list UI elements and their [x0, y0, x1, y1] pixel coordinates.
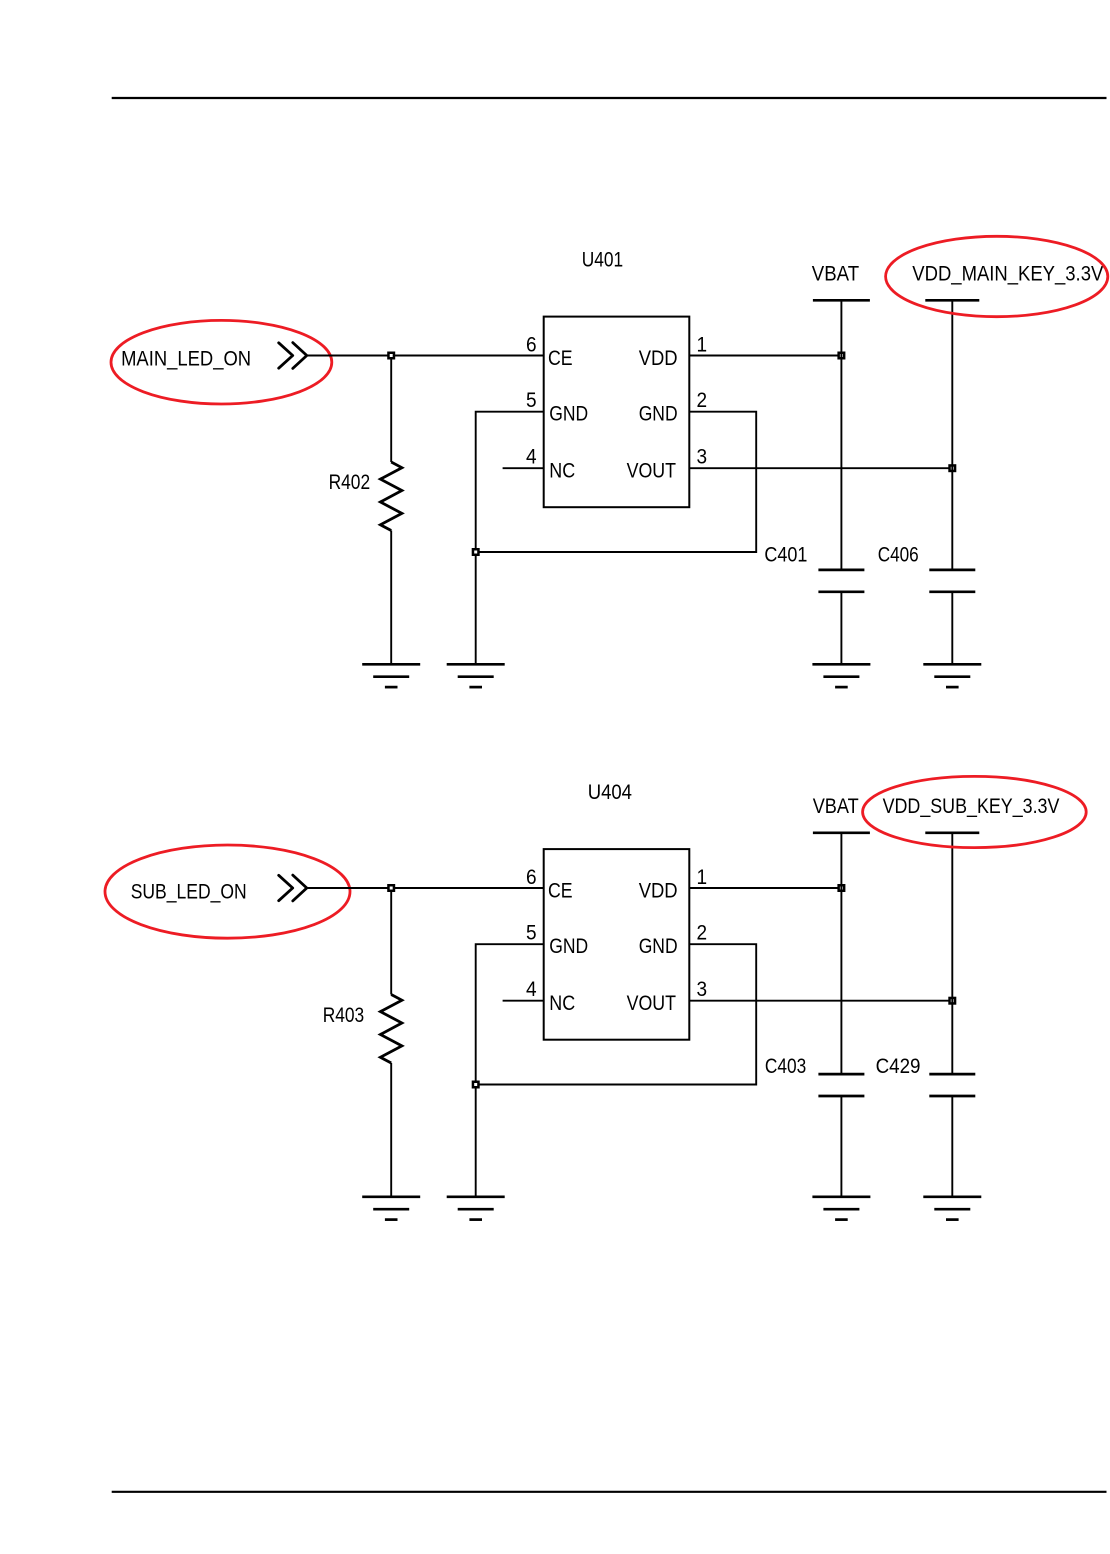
ground	[362, 1197, 420, 1220]
input port chevron SUB_LED_ON	[279, 875, 307, 901]
red highlight ellipse around SUB_LED_ON	[105, 845, 350, 938]
svg-text:U404: U404	[588, 781, 633, 804]
IC U401	[544, 317, 690, 508]
svg-text:C406: C406	[878, 543, 919, 566]
svg-text:VOUT: VOUT	[627, 992, 677, 1015]
ground	[362, 664, 420, 687]
svg-text:5: 5	[526, 389, 537, 412]
wire: VOUT pin 3 to output rail	[689, 467, 952, 469]
junction input/R402 node	[388, 353, 394, 359]
svg-text:2: 2	[697, 921, 708, 944]
svg-text:C403: C403	[765, 1055, 806, 1078]
svg-text:VBAT: VBAT	[812, 262, 859, 285]
resistor R402	[380, 359, 402, 665]
wire: GND pin 2 return to ground net	[479, 412, 757, 552]
svg-text:R402: R402	[329, 471, 371, 494]
svg-text:CE: CE	[548, 347, 573, 370]
svg-text:VDD: VDD	[639, 880, 678, 903]
wire: capacitor to ground	[951, 1096, 953, 1197]
svg-text:VDD: VDD	[639, 347, 678, 370]
power symbol VDD_MAIN_KEY_3.3V	[925, 300, 979, 570]
power symbol VBAT	[813, 300, 870, 570]
junction ground net	[473, 549, 479, 555]
svg-text:2: 2	[697, 389, 708, 412]
svg-text:VBAT: VBAT	[813, 795, 859, 818]
svg-text:U401: U401	[582, 248, 623, 271]
capacitor C401	[818, 570, 864, 592]
svg-text:6: 6	[526, 334, 537, 357]
wire: GND pin 2 return to ground net	[479, 944, 757, 1084]
svg-text:6: 6	[526, 866, 537, 889]
wire: NC pin 4 stub	[503, 467, 544, 469]
wire: VOUT pin 3 to output rail	[689, 1000, 952, 1002]
svg-text:NC: NC	[549, 992, 575, 1015]
capacitor C429	[929, 1074, 975, 1096]
wire: input to CE pin 6	[307, 887, 544, 889]
svg-text:VDD_MAIN_KEY_3.3V: VDD_MAIN_KEY_3.3V	[912, 263, 1103, 286]
svg-text:VOUT: VOUT	[627, 459, 677, 482]
capacitor C406	[929, 570, 975, 592]
junction VDD/VBAT	[839, 353, 845, 359]
svg-text:3: 3	[697, 446, 708, 469]
capacitor C403	[818, 1074, 864, 1096]
svg-text:5: 5	[526, 921, 537, 944]
ground	[812, 664, 870, 687]
wire: input to CE pin 6	[307, 355, 544, 357]
wire: GND pin 5 to ground net	[476, 412, 544, 665]
svg-text:1: 1	[697, 866, 708, 889]
junction ground net	[473, 1082, 479, 1088]
svg-text:C401: C401	[764, 543, 807, 566]
red highlight ellipse around VDD_SUB_KEY_3.3V	[863, 776, 1087, 847]
power symbol VBAT	[813, 833, 870, 1074]
top horizontal rule	[112, 97, 1107, 99]
svg-text:4: 4	[526, 978, 537, 1001]
ground	[923, 1197, 981, 1220]
red highlight ellipse around VDD_MAIN_KEY_3.3V	[886, 236, 1108, 316]
svg-text:SUB_LED_ON: SUB_LED_ON	[131, 880, 247, 903]
junction input/R403 node	[388, 885, 394, 891]
svg-text:VDD_SUB_KEY_3.3V: VDD_SUB_KEY_3.3V	[883, 795, 1060, 818]
wire: capacitor to ground	[840, 1096, 842, 1197]
svg-text:CE: CE	[548, 880, 573, 903]
wire: capacitor to ground	[840, 592, 842, 665]
resistor R403	[380, 891, 402, 1197]
svg-text:MAIN_LED_ON: MAIN_LED_ON	[121, 348, 251, 371]
junction VDD/VBAT	[839, 885, 845, 891]
wire: GND pin 5 to ground net	[476, 944, 544, 1197]
bottom horizontal rule	[112, 1491, 1107, 1493]
svg-text:NC: NC	[549, 459, 575, 482]
wire: VDD pin 1 to VBAT	[689, 355, 841, 357]
IC U404	[544, 849, 690, 1040]
svg-text:GND: GND	[549, 935, 588, 958]
ground	[923, 664, 981, 687]
svg-text:GND: GND	[639, 403, 678, 426]
wire: NC pin 4 stub	[503, 1000, 544, 1002]
svg-text:GND: GND	[639, 935, 678, 958]
junction VOUT/output rail	[950, 998, 956, 1004]
ground	[812, 1197, 870, 1220]
wire: VDD pin 1 to VBAT	[689, 887, 841, 889]
power symbol VDD_SUB_KEY_3.3V	[925, 833, 979, 1074]
junction VOUT/output rail	[950, 465, 956, 471]
ground	[447, 664, 505, 687]
red highlight ellipse around MAIN_LED_ON	[111, 320, 332, 404]
svg-text:4: 4	[526, 446, 537, 469]
svg-text:R403: R403	[323, 1004, 365, 1027]
svg-text:C429: C429	[876, 1055, 921, 1078]
input port chevron MAIN_LED_ON	[279, 343, 307, 369]
svg-text:3: 3	[697, 978, 708, 1001]
ground	[447, 1197, 505, 1220]
wire: capacitor to ground	[951, 592, 953, 665]
svg-text:GND: GND	[549, 403, 588, 426]
svg-text:1: 1	[697, 334, 708, 357]
